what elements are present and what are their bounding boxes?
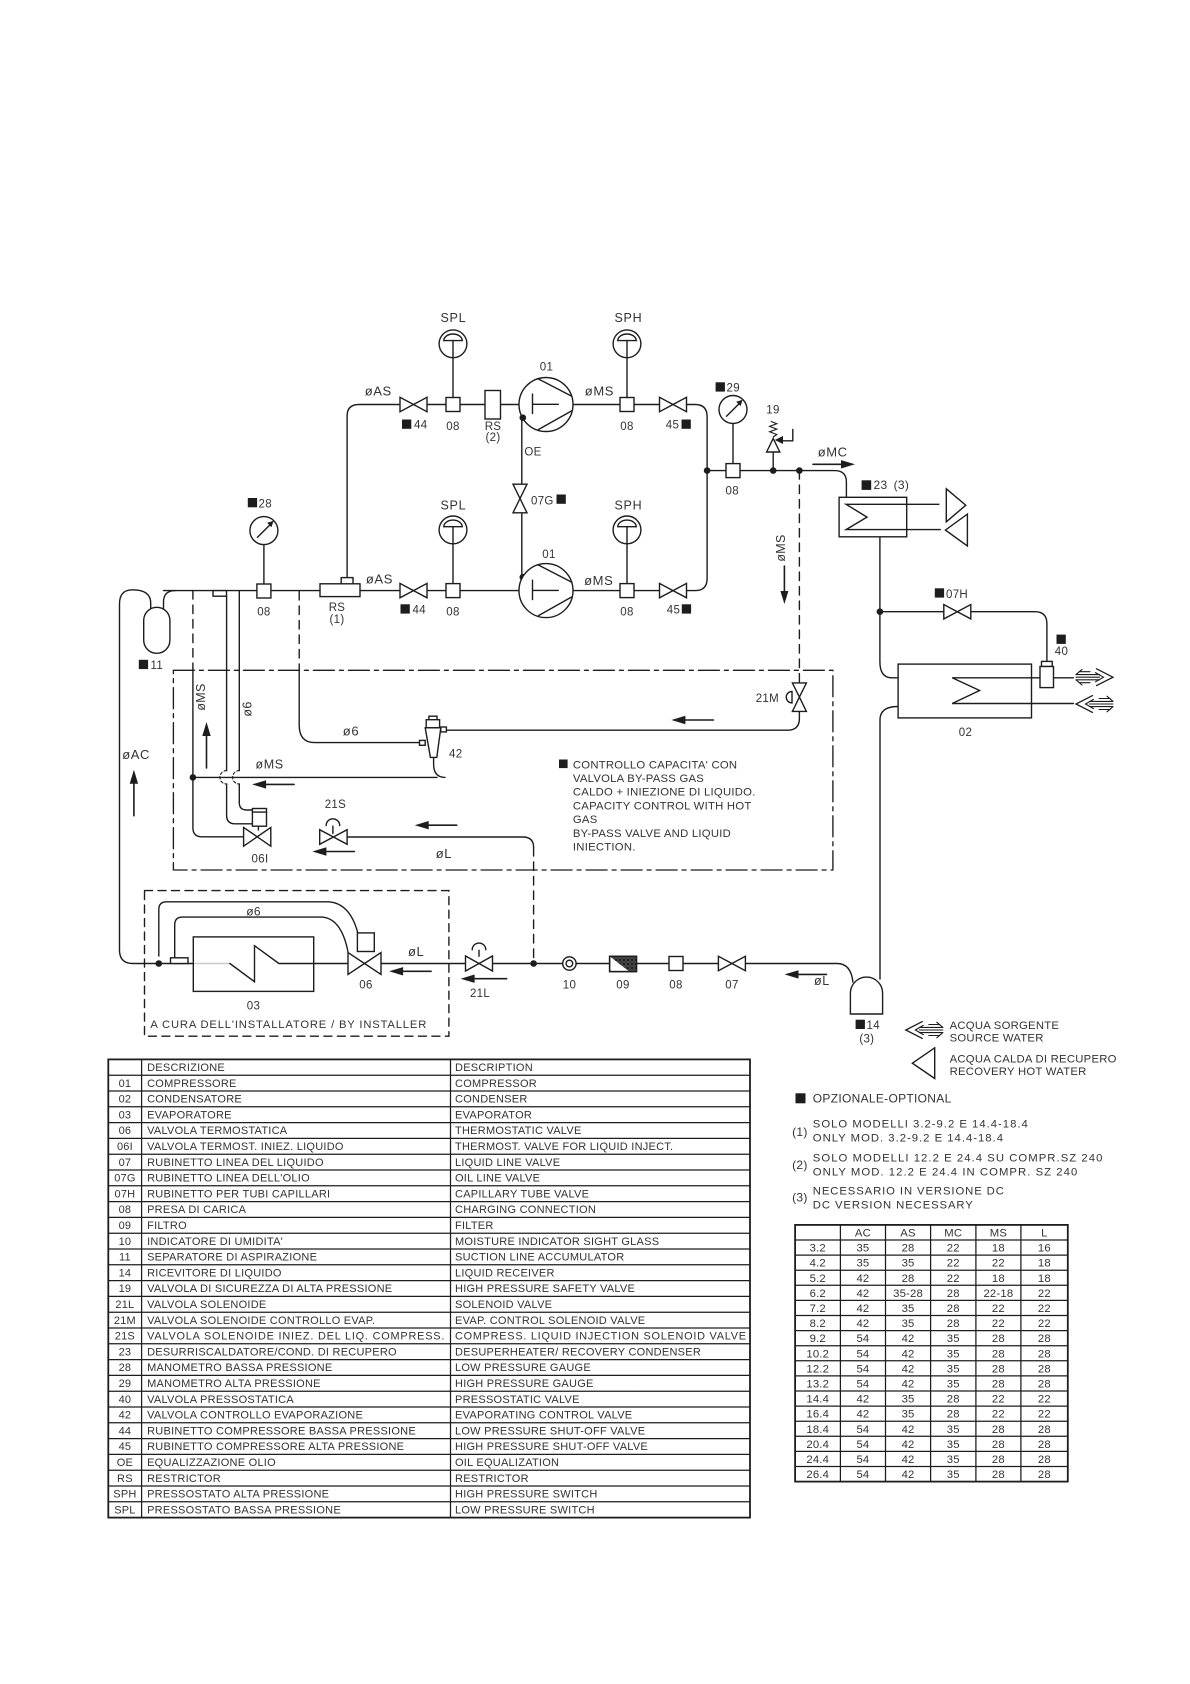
svg-text:22: 22	[992, 1409, 1005, 1421]
svg-text:23: 23	[119, 1346, 132, 1358]
svg-text:øMS: øMS	[256, 757, 284, 771]
svg-text:35: 35	[947, 1333, 960, 1345]
wire valve42 to 21M (oMS)	[446, 711, 799, 730]
svg-text:FILTRO: FILTRO	[147, 1220, 187, 1232]
svg-text:AC: AC	[855, 1228, 871, 1240]
suction accumulator 11	[144, 607, 170, 653]
svg-text:22: 22	[1038, 1318, 1051, 1330]
recovery hot water triangle out	[946, 489, 966, 522]
labels row2	[248, 498, 257, 507]
flow arrow oAC up	[133, 782, 135, 816]
flow arrow oMS down	[783, 566, 785, 593]
svg-text:(3): (3)	[792, 1191, 808, 1205]
svg-text:MANOMETRO ALTA PRESSIONE: MANOMETRO ALTA PRESSIONE	[147, 1378, 321, 1390]
svg-text:CAPACITY CONTROL WITH HOT: CAPACITY CONTROL WITH HOT	[573, 800, 752, 812]
legend table	[108, 1059, 750, 1517]
wire condenser to receiver	[880, 707, 898, 980]
svg-text:09: 09	[616, 980, 629, 992]
svg-text:OIL LINE VALVE: OIL LINE VALVE	[455, 1173, 540, 1185]
svg-text:07: 07	[725, 980, 738, 992]
svg-text:COMPRESSORE: COMPRESSORE	[147, 1078, 237, 1090]
svg-text:CONDENSATORE: CONDENSATORE	[147, 1094, 242, 1106]
svg-text:CONDENSER: CONDENSER	[455, 1094, 528, 1106]
svg-text:14: 14	[867, 1020, 881, 1032]
svg-text:28: 28	[992, 1439, 1005, 1451]
svg-text:28: 28	[947, 1303, 960, 1315]
svg-text:26.4: 26.4	[806, 1469, 829, 1481]
svg-text:35: 35	[902, 1409, 915, 1421]
svg-text:14: 14	[119, 1267, 132, 1279]
svg-text:35: 35	[902, 1318, 915, 1330]
svg-text:35: 35	[856, 1258, 869, 1270]
oil dots on compressors	[520, 414, 527, 421]
svg-text:19: 19	[766, 405, 779, 417]
pressostatic valve 40	[1042, 661, 1053, 666]
svg-text:SPL: SPL	[441, 499, 467, 513]
svg-text:MS: MS	[990, 1228, 1008, 1240]
wire 06 bulb capillary	[175, 917, 348, 958]
svg-text:24.4: 24.4	[806, 1454, 829, 1466]
svg-text:45: 45	[666, 420, 679, 432]
svg-text:42: 42	[856, 1303, 869, 1315]
svg-text:54: 54	[856, 1454, 869, 1466]
svg-text:3.2: 3.2	[810, 1243, 826, 1255]
wire accumulator outlet neck	[164, 591, 176, 610]
svg-text:22: 22	[1038, 1394, 1051, 1406]
svg-text:22: 22	[947, 1243, 960, 1255]
svg-text:29: 29	[727, 383, 740, 395]
svg-text:06: 06	[119, 1125, 132, 1137]
svg-text:VALVOLA TERMOST. INIEZ. LIQ: VALVOLA TERMOST. INIEZ. LIQUIDO	[147, 1141, 344, 1153]
svg-text:VALVOLA SOLENOIDE CONTROLLO: VALVOLA SOLENOIDE CONTROLLO EVAP.	[147, 1315, 375, 1327]
svg-text:22: 22	[1038, 1288, 1051, 1300]
solenoid valve 21L	[478, 950, 480, 956]
svg-text:28: 28	[947, 1409, 960, 1421]
gauge 29	[732, 424, 734, 464]
solenoid valve 21M	[792, 683, 806, 712]
wire oil equalization OE	[521, 418, 523, 484]
svg-text:35: 35	[902, 1303, 915, 1315]
wire oMC discharge header	[707, 471, 846, 498]
restrictor RS(2)	[485, 391, 501, 420]
svg-text:28: 28	[1038, 1469, 1051, 1481]
svg-text:5.2: 5.2	[810, 1273, 826, 1285]
svg-text:ø6: ø6	[246, 904, 261, 918]
wire bottom water line condenser	[1032, 703, 1074, 705]
svg-text:54: 54	[856, 1379, 869, 1391]
svg-text:FILTER: FILTER	[455, 1220, 494, 1232]
svg-text:28: 28	[992, 1424, 1005, 1436]
pressure switch SPL row2	[452, 544, 454, 584]
bulb 06 on outlet	[171, 958, 189, 964]
svg-text:42: 42	[902, 1379, 915, 1391]
svg-text:L: L	[1041, 1228, 1047, 1240]
svg-text:22: 22	[992, 1258, 1005, 1270]
wire evaporator inlet (grey tube)	[193, 963, 230, 965]
svg-text:19: 19	[119, 1283, 132, 1295]
svg-text:THERMOST. VALVE FOR LIQUID: THERMOST. VALVE FOR LIQUID INJECT.	[455, 1141, 673, 1153]
svg-text:42: 42	[856, 1273, 869, 1285]
charge conn 08 liquid	[669, 957, 683, 971]
svg-text:28: 28	[902, 1273, 915, 1285]
svg-text:28: 28	[1038, 1439, 1051, 1451]
therm. injection valve 06I	[252, 809, 266, 827]
wire top water line condenser	[1054, 677, 1074, 679]
flow arrow oL main	[797, 973, 827, 975]
svg-text:PRESA DI CARICA: PRESA DI CARICA	[147, 1204, 247, 1216]
svg-text:BY-PASS VALVE AND LIQUID: BY-PASS VALVE AND LIQUID	[573, 828, 731, 840]
svg-text:01: 01	[542, 549, 555, 561]
svg-text:øAC: øAC	[122, 747, 150, 762]
svg-text:01: 01	[540, 362, 553, 374]
svg-text:ONLY MOD. 12.2 E 24.4 IN: ONLY MOD. 12.2 E 24.4 IN COMPR. SZ 240	[813, 1166, 1079, 1178]
svg-text:28: 28	[947, 1318, 960, 1330]
svg-text:01: 01	[119, 1078, 132, 1090]
opzionale note	[796, 1093, 806, 1103]
svg-text:28: 28	[992, 1454, 1005, 1466]
svg-text:42: 42	[449, 748, 462, 760]
wire desuperheater to condenser	[880, 537, 898, 678]
svg-text:(3): (3)	[859, 1033, 874, 1045]
svg-text:21S: 21S	[325, 799, 346, 811]
svg-text:42: 42	[902, 1333, 915, 1345]
svg-text:LOW PRESSURE SHUT-OFF VALVE: LOW PRESSURE SHUT-OFF VALVE	[455, 1425, 645, 1437]
svg-text:06I: 06I	[252, 853, 269, 865]
svg-text:07H: 07H	[115, 1188, 136, 1200]
svg-text:20.4: 20.4	[806, 1439, 829, 1451]
safety valve 19	[767, 439, 780, 453]
svg-text:35: 35	[947, 1469, 960, 1481]
junction dots oMC	[704, 467, 711, 474]
svg-text:09: 09	[119, 1220, 132, 1232]
liquid receiver 14	[850, 977, 882, 1014]
svg-text:10: 10	[119, 1236, 132, 1248]
svg-text:HIGH PRESSURE GAUGE: HIGH PRESSURE GAUGE	[455, 1378, 594, 1390]
svg-text:22: 22	[947, 1273, 960, 1285]
svg-text:42: 42	[902, 1439, 915, 1451]
svg-text:22: 22	[992, 1394, 1005, 1406]
svg-text:ø6: ø6	[343, 723, 359, 738]
svg-text:PRESSOSTATIC VALVE: PRESSOSTATIC VALVE	[455, 1394, 580, 1406]
flow arrow oL at 06	[401, 970, 431, 972]
svg-text:EVAPORATING CONTROL VALVE: EVAPORATING CONTROL VALVE	[455, 1410, 632, 1422]
svg-text:EVAP. CONTROL SOLENOID VALV: EVAP. CONTROL SOLENOID VALVE	[455, 1315, 645, 1327]
svg-text:øL: øL	[436, 846, 452, 861]
svg-text:øL: øL	[408, 944, 424, 959]
svg-text:28: 28	[947, 1394, 960, 1406]
wire 07H capillary branch	[880, 612, 1047, 662]
svg-text:LOW PRESSURE GAUGE: LOW PRESSURE GAUGE	[455, 1362, 591, 1374]
svg-text:28: 28	[1038, 1333, 1051, 1345]
charge conn 08 oMC	[726, 464, 740, 478]
svg-text:INIECTION.: INIECTION.	[573, 842, 636, 854]
legend water symbols	[919, 1026, 943, 1028]
svg-text:28: 28	[1038, 1348, 1051, 1360]
svg-text:42: 42	[902, 1348, 915, 1360]
svg-text:23 (3): 23 (3)	[874, 478, 910, 492]
svg-text:RECOVERY HOT WATER: RECOVERY HOT WATER	[950, 1066, 1087, 1078]
svg-text:VALVOLA CONTROLLO EVAPORAZIO: VALVOLA CONTROLLO EVAPORAZIONE	[147, 1410, 363, 1422]
svg-text:22-18: 22-18	[983, 1288, 1013, 1300]
dot oL injection tap	[530, 960, 537, 967]
wire evaporator zigzag tube	[230, 946, 348, 982]
svg-text:22: 22	[947, 1258, 960, 1270]
restrictor RS(1)	[320, 584, 360, 597]
dot oMS bypass junction	[190, 774, 197, 781]
svg-text:28: 28	[902, 1243, 915, 1255]
svg-text:42: 42	[902, 1469, 915, 1481]
svg-text:12.2: 12.2	[806, 1363, 829, 1375]
svg-text:35: 35	[947, 1379, 960, 1391]
valve 07H	[944, 605, 971, 619]
svg-text:SOURCE WATER: SOURCE WATER	[950, 1033, 1044, 1045]
svg-text:INDICATORE DI UMIDITA': INDICATORE DI UMIDITA'	[147, 1236, 283, 1248]
svg-text:THERMOSTATIC VALVE: THERMOSTATIC VALVE	[455, 1125, 582, 1137]
condenser 02	[898, 664, 1031, 718]
svg-text:CALDO + INIEZIONE DI LIQUI: CALDO + INIEZIONE DI LIQUIDO.	[573, 787, 756, 799]
svg-text:18: 18	[992, 1243, 1005, 1255]
svg-text:RUBINETTO COMPRESSORE ALTA: RUBINETTO COMPRESSORE ALTA PRESSIONE	[147, 1441, 404, 1453]
svg-text:OIL EQUALIZATION: OIL EQUALIZATION	[455, 1457, 559, 1469]
bulb 06I on suction line	[213, 591, 227, 597]
dot 07H junction	[877, 608, 884, 615]
svg-text:SPL: SPL	[441, 311, 467, 325]
wire liquid line oL	[348, 964, 853, 983]
wire oMS dashed hot gas (x799)	[798, 471, 800, 683]
svg-text:NECESSARIO IN VERSIONE DC: NECESSARIO IN VERSIONE DC	[813, 1185, 1005, 1197]
gauge 28	[263, 544, 265, 584]
svg-text:ø6: ø6	[241, 701, 255, 716]
svg-text:LOW PRESSURE SWITCH: LOW PRESSURE SWITCH	[455, 1504, 595, 1516]
svg-text:MANOMETRO BASSA PRESSIONE: MANOMETRO BASSA PRESSIONE	[147, 1362, 332, 1374]
valve 45 row2	[660, 583, 687, 597]
solenoid valve 21S	[332, 826, 334, 834]
model size table	[795, 1225, 1068, 1482]
svg-text:29: 29	[119, 1378, 132, 1390]
flow arrow 06I inlet	[324, 851, 354, 853]
svg-text:08: 08	[726, 486, 739, 498]
wire o6 line to valve 42	[298, 592, 300, 671]
svg-text:28: 28	[1038, 1424, 1051, 1436]
svg-text:42: 42	[902, 1363, 915, 1375]
svg-text:28: 28	[1038, 1379, 1051, 1391]
svg-text:OPZIONALE-OPTIONAL: OPZIONALE-OPTIONAL	[813, 1092, 952, 1106]
svg-text:(1): (1)	[330, 614, 345, 626]
svg-text:07G: 07G	[114, 1173, 135, 1185]
wire 19 relief stem	[772, 452, 774, 471]
svg-text:VALVOLA DI SICUREZZA DI AL: VALVOLA DI SICUREZZA DI ALTA PRESSIONE	[147, 1283, 392, 1295]
svg-text:21S: 21S	[115, 1331, 135, 1343]
svg-text:06I: 06I	[117, 1141, 133, 1153]
svg-text:28: 28	[992, 1348, 1005, 1360]
svg-text:CONTROLLO CAPACITA' CON: CONTROLLO CAPACITA' CON	[573, 759, 737, 771]
svg-text:35: 35	[947, 1348, 960, 1360]
svg-text:SEPARATORE DI ASPIRAZIONE: SEPARATORE DI ASPIRAZIONE	[147, 1252, 317, 1264]
svg-text:ACQUA CALDA DI RECUPERO: ACQUA CALDA DI RECUPERO	[950, 1053, 1117, 1065]
svg-text:A CURA DELL'INSTALLATORE /: A CURA DELL'INSTALLATORE / BY INSTALLER	[150, 1019, 427, 1031]
flow arrow oMS y777	[264, 783, 294, 785]
svg-text:DC VERSION NECESSARY: DC VERSION NECESSARY	[813, 1199, 974, 1211]
svg-text:6.2: 6.2	[810, 1288, 826, 1300]
svg-text:07G: 07G	[531, 496, 554, 508]
svg-text:SOLENOID VALVE: SOLENOID VALVE	[455, 1299, 552, 1311]
pressure switch SPH row1	[626, 358, 628, 398]
svg-text:35-28: 35-28	[893, 1288, 923, 1300]
svg-text:44: 44	[413, 604, 427, 616]
svg-text:COMPRESSOR: COMPRESSOR	[455, 1078, 537, 1090]
svg-text:LIQUID LINE VALVE: LIQUID LINE VALVE	[455, 1157, 560, 1169]
svg-text:MOISTURE INDICATOR SIGHT GL: MOISTURE INDICATOR SIGHT GLASS	[455, 1236, 659, 1248]
wire oL liquid injection supply	[347, 837, 534, 848]
charge conn 08 row2	[446, 584, 460, 598]
flow arrow oMC	[813, 463, 843, 465]
svg-text:RS: RS	[117, 1473, 133, 1485]
svg-text:10: 10	[563, 980, 576, 992]
svg-text:07H: 07H	[946, 589, 968, 601]
svg-text:DESURRISCALDATORE/COND. DI R: DESURRISCALDATORE/COND. DI RECUPERO	[147, 1346, 397, 1358]
thermostatic valve 06	[357, 933, 374, 952]
svg-text:(2): (2)	[792, 1158, 808, 1172]
svg-text:08: 08	[446, 421, 459, 433]
svg-text:RUBINETTO LINEA DEL LIQUIDO: RUBINETTO LINEA DEL LIQUIDO	[147, 1157, 324, 1169]
svg-text:RUBINETTO COMPRESSORE BASSA: RUBINETTO COMPRESSORE BASSA PRESSIONE	[147, 1425, 416, 1437]
svg-text:45: 45	[119, 1441, 132, 1453]
svg-text:21L: 21L	[115, 1299, 134, 1311]
svg-text:VALVOLA SOLENOIDE: VALVOLA SOLENOIDE	[147, 1299, 266, 1311]
svg-text:EQUALIZZAZIONE OLIO: EQUALIZZAZIONE OLIO	[147, 1457, 276, 1469]
svg-text:28: 28	[992, 1469, 1005, 1481]
svg-text:54: 54	[856, 1348, 869, 1360]
svg-text:35: 35	[856, 1243, 869, 1255]
svg-text:RUBINETTO PER TUBI CAPILLAR: RUBINETTO PER TUBI CAPILLARI	[147, 1188, 330, 1200]
svg-text:08: 08	[669, 980, 682, 992]
svg-text:18.4: 18.4	[806, 1424, 829, 1436]
svg-text:18: 18	[992, 1273, 1005, 1285]
svg-text:øAS: øAS	[366, 572, 393, 587]
svg-text:OE: OE	[524, 447, 541, 459]
compressor 01 row1	[519, 378, 573, 432]
svg-text:35: 35	[947, 1424, 960, 1436]
svg-text:SPL: SPL	[114, 1504, 135, 1516]
svg-text:7.2: 7.2	[810, 1303, 826, 1315]
svg-text:35: 35	[902, 1394, 915, 1406]
svg-text:28: 28	[1038, 1363, 1051, 1375]
source water arrow out (top)	[1076, 674, 1100, 676]
svg-text:SPH: SPH	[113, 1489, 136, 1501]
svg-text:øMS: øMS	[194, 683, 208, 710]
svg-text:40: 40	[1055, 646, 1068, 658]
wire oAC riser	[120, 590, 159, 964]
filter 09	[610, 956, 637, 971]
svg-text:AS: AS	[900, 1228, 916, 1240]
svg-text:HIGH PRESSURE SWITCH: HIGH PRESSURE SWITCH	[455, 1489, 598, 1501]
svg-text:CHARGING CONNECTION: CHARGING CONNECTION	[455, 1204, 596, 1216]
svg-text:35: 35	[902, 1258, 915, 1270]
svg-text:21L: 21L	[470, 988, 490, 1000]
svg-text:VALVOLA SOLENOIDE INIEZ. DE: VALVOLA SOLENOIDE INIEZ. DEL LIQ. COMPRE…	[147, 1331, 445, 1343]
svg-text:08: 08	[257, 607, 270, 619]
svg-text:GAS: GAS	[573, 814, 598, 826]
wire o6 injection line (x239)	[238, 591, 240, 771]
svg-text:VALVOLA TERMOSTATICA: VALVOLA TERMOSTATICA	[147, 1125, 288, 1137]
wire evaporator outlet to oAC	[159, 963, 194, 965]
sight glass 10	[563, 957, 576, 970]
evap control valve 42	[429, 716, 437, 720]
svg-text:RUBINETTO LINEA DELL'OLIO: RUBINETTO LINEA DELL'OLIO	[147, 1173, 310, 1185]
svg-text:28: 28	[947, 1288, 960, 1300]
valve 07	[718, 956, 745, 970]
charge conn 08b row1	[620, 398, 634, 412]
installer dashed box	[145, 891, 449, 1037]
svg-text:54: 54	[856, 1439, 869, 1451]
svg-text:SPH: SPH	[615, 499, 643, 513]
svg-text:42: 42	[902, 1424, 915, 1436]
svg-text:RESTRICTOR: RESTRICTOR	[455, 1473, 529, 1485]
svg-text:44: 44	[119, 1425, 132, 1437]
svg-text:8.2: 8.2	[810, 1318, 826, 1330]
svg-text:DESCRIZIONE: DESCRIZIONE	[147, 1062, 225, 1074]
svg-text:35: 35	[947, 1363, 960, 1375]
svg-text:EVAPORATOR: EVAPORATOR	[455, 1109, 532, 1121]
svg-text:øMC: øMC	[818, 444, 848, 459]
valve 44 row2	[400, 583, 427, 597]
svg-text:08: 08	[446, 606, 459, 618]
svg-text:42: 42	[856, 1288, 869, 1300]
svg-text:RICEVITORE DI LIQUIDO: RICEVITORE DI LIQUIDO	[147, 1267, 282, 1279]
charge conn 08 gauge28	[257, 584, 271, 598]
svg-text:42: 42	[856, 1318, 869, 1330]
svg-text:ONLY MOD. 3.2-9.2 E 14.4-1: ONLY MOD. 3.2-9.2 E 14.4-18.4	[813, 1133, 1004, 1145]
svg-text:11: 11	[151, 660, 164, 672]
svg-text:18: 18	[1038, 1273, 1051, 1285]
pressure switch SPH row2	[626, 544, 628, 584]
svg-text:03: 03	[247, 1001, 260, 1013]
svg-text:06: 06	[359, 979, 372, 991]
svg-text:RESTRICTOR: RESTRICTOR	[147, 1473, 221, 1485]
wire 06I bulb capillary (x227)	[226, 596, 228, 771]
svg-text:COMPRESS. LIQUID INJECTION: COMPRESS. LIQUID INJECTION SOLENOID VALV…	[455, 1331, 747, 1343]
svg-text:28: 28	[259, 499, 272, 511]
svg-text:22: 22	[1038, 1409, 1051, 1421]
svg-text:øAS: øAS	[365, 384, 392, 399]
svg-text:22: 22	[992, 1303, 1005, 1315]
svg-text:9.2: 9.2	[810, 1333, 826, 1345]
svg-text:16: 16	[1038, 1243, 1051, 1255]
svg-text:22: 22	[1038, 1303, 1051, 1315]
svg-text:PRESSOSTATO ALTA PRESSIONE: PRESSOSTATO ALTA PRESSIONE	[147, 1489, 329, 1501]
svg-text:35: 35	[947, 1439, 960, 1451]
pressure switch SPL row1	[452, 358, 454, 398]
svg-text:08: 08	[620, 606, 633, 618]
svg-text:PRESSOSTATO BASSA PRESSIONE: PRESSOSTATO BASSA PRESSIONE	[147, 1504, 341, 1516]
svg-text:SPH: SPH	[615, 311, 643, 325]
wire suction line row1 oAS-oMS	[164, 405, 708, 591]
svg-text:13.2: 13.2	[806, 1379, 829, 1391]
svg-text:4.2: 4.2	[810, 1258, 826, 1270]
svg-text:08: 08	[620, 421, 633, 433]
flow arrow 21L	[473, 978, 507, 980]
svg-text:VALVOLA BY-PASS GAS: VALVOLA BY-PASS GAS	[573, 773, 704, 785]
svg-text:54: 54	[856, 1424, 869, 1436]
evaporator 03	[193, 937, 313, 992]
svg-text:SOLO MODELLI 3.2-9.2 E 14.: SOLO MODELLI 3.2-9.2 E 14.4-18.4	[813, 1119, 1029, 1131]
svg-text:40: 40	[119, 1394, 132, 1406]
svg-text:28: 28	[119, 1362, 132, 1374]
svg-text:HIGH PRESSURE SAFETY VALVE: HIGH PRESSURE SAFETY VALVE	[455, 1283, 635, 1295]
svg-text:EVAPORATORE: EVAPORATORE	[147, 1109, 232, 1121]
svg-text:02: 02	[959, 727, 972, 739]
svg-text:VALVOLA PRESSOSTATICA: VALVOLA PRESSOSTATICA	[147, 1394, 294, 1406]
